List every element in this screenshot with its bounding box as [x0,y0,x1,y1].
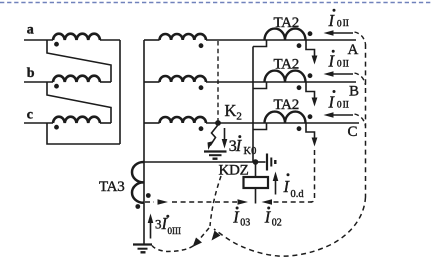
svg-text:TA3: TA3 [99,179,124,195]
svg-text:02: 02 [272,218,282,229]
svg-text:I: I [328,51,336,70]
dashed relay current line left [145,201,154,203]
svg-text:0III: 0III [168,226,182,236]
dashed capacitive return bottom arc [214,197,366,256]
dashed curl C [355,114,366,126]
current arrow TA2-C secondary down [312,138,318,147]
svg-text:C: C [348,124,358,140]
wire phase c lead [24,122,53,124]
node relay junction dot [253,159,259,165]
svg-text:I: I [328,11,336,30]
dashed relay current line middle [172,201,237,203]
wire TA2-B secondary right lead [306,82,315,98]
polarity dot TA2-B lower [297,85,302,90]
winding W1c (delta primary, phase c) [53,117,100,123]
svg-text:I: I [328,92,336,111]
wire TA2-B secondary left lead [253,82,267,89]
wire delta right vertical [119,40,121,144]
svg-text:0: 0 [337,19,342,29]
wire relay bottom leg [255,188,257,204]
polarity dot TA3 lower [135,204,140,209]
blue page border dashed line [0,2,431,4]
polarity dot W1b [54,84,59,89]
CT TA3 (cable CT) [132,162,144,203]
ground TA3 [133,243,152,245]
ground (secondary circuit, rotated) [256,161,266,163]
wire TA2-A secondary right lead [306,40,315,56]
svg-text:II: II [343,59,349,69]
wire TA2-C secondary right lead [306,123,315,139]
CT TA2 phase C [265,112,306,123]
fault lightning bolt [210,126,217,146]
polarity dot W2b [199,85,204,90]
dashed TA2 secondary return vertical [311,150,315,202]
svg-text:I: I [232,207,240,226]
wire line C [206,122,359,124]
current arrowhead (from TA3) [158,199,169,205]
svg-text:0: 0 [337,101,342,111]
wire W2c lead [144,122,160,124]
polarity dot W2c [199,126,204,131]
current arrowhead on return arc [212,231,221,241]
svg-text:0.d: 0.d [291,189,305,200]
svg-text:II: II [343,100,349,110]
wire TA3 secondary to relay [144,161,253,163]
current arrowhead to TA3 ground [193,238,203,248]
svg-text:II: II [343,19,349,29]
wire W1b right [100,81,111,83]
current arrow I0.d up [275,178,277,195]
dashed curl A [355,32,366,44]
node K2 junction dot [215,120,221,126]
polarity dot W1c [54,125,59,130]
wire TA2-A secondary left lead [253,40,267,47]
svg-text:A: A [348,42,359,58]
svg-text:I: I [264,207,272,226]
winding W1a (delta primary, phase a) [53,34,100,40]
wire line A [206,39,356,41]
dashed relay current line right [274,201,313,203]
polarity dot TA2-A lower [297,43,302,48]
polarity dot TA2-C upper [308,114,313,119]
wire phase a lead [24,39,53,41]
polarity dot TA2-B upper [308,73,313,78]
current arrow TA2-A secondary down [312,56,318,65]
polarity dot W2a [199,43,204,48]
svg-text:I: I [235,136,243,155]
svg-text:a: a [27,22,34,37]
winding W2c (secondary, phase C) [160,117,207,123]
wire delta a-to-b diagonal [47,40,111,82]
wire TA2-C secondary left lead [253,123,267,130]
current arrow I0II phase C [331,114,353,116]
dashed curl B [355,73,366,85]
fault tap dashed line [217,41,219,121]
relay KDZ coil [244,177,269,188]
polarity dot TA2-A upper [308,31,313,36]
wire W2a lead [144,39,160,41]
current arrow 3IK0 [224,128,226,140]
svg-text:03: 03 [240,218,250,229]
dashed capacitive return vertical [365,44,367,197]
winding W2b (secondary, phase B) [160,76,207,82]
wire W1c right [100,122,111,124]
dashed earth path from K2 [210,176,221,226]
svg-text:b: b [27,66,35,81]
current arrowhead I03 [238,199,249,205]
ground at fault K2 [204,150,227,152]
current arrow TA2-B secondary down [312,98,318,107]
wire phase b lead [24,81,53,83]
polarity dot TA2-C lower [297,126,302,131]
wire secondary star bus [143,40,145,244]
wire delta b-to-c diagonal [47,82,111,123]
svg-text:K0: K0 [244,146,257,157]
polarity dot TA3 upper [146,193,151,198]
CT TA2 phase A [265,29,306,40]
wire line B [206,81,356,83]
svg-text:K2: K2 [225,101,242,123]
wire W2b lead [144,81,160,83]
CT TA2 phase B [265,71,306,82]
wire TA2 secondary left bus [252,47,254,163]
polarity dot W1a [54,42,59,47]
wire W1a right to delta corner [100,39,120,41]
current arrowhead I02 [262,199,273,205]
current arrow I0II phase B [331,73,353,75]
current arrow I0II phase A [331,32,353,34]
winding W2a (secondary, phase A) [160,34,207,40]
winding W1b (delta primary, phase b) [53,76,100,82]
current arrow 3I0III up [150,222,152,239]
svg-text:c: c [27,107,33,122]
wire delta c-to-a bottom [47,123,120,144]
svg-text:0: 0 [337,60,342,70]
wire relay top leg [255,162,257,177]
svg-text:B: B [349,83,359,99]
svg-text:I: I [283,177,291,196]
dashed earth path to TA3 ground [152,228,209,252]
